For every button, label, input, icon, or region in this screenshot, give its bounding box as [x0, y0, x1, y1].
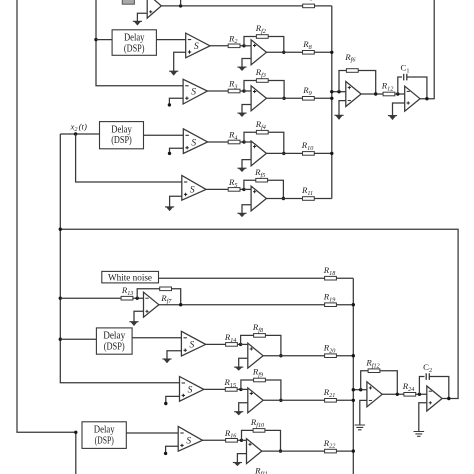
op-amp U1 (integrator)	[405, 86, 420, 111]
node rail to delay1 junction	[94, 38, 97, 41]
node f5 output junction	[282, 197, 285, 200]
wire f4 inverting input to ground	[242, 160, 251, 169]
node R24 / C2 feedback junction	[418, 393, 421, 396]
resistor Rf9	[252, 367, 266, 382]
wire Rf12 output through R24 to integrator U2	[382, 393, 427, 395]
svg-text:(DSP): (DSP)	[104, 342, 125, 353]
wire f4 feedback loop	[244, 132, 284, 153]
capacitor C1	[401, 63, 410, 81]
label x2(t)	[70, 121, 87, 133]
wire f8 inverting input to ground	[239, 358, 248, 367]
resistor R20	[323, 342, 337, 357]
node f10 input junction	[240, 439, 243, 442]
wire f9 input	[241, 388, 248, 390]
resistor R14	[224, 332, 238, 346]
svg-text:(DSP): (DSP)	[95, 435, 115, 446]
node bus B / R19 junction	[352, 303, 355, 306]
node S3 plus terminal	[168, 152, 171, 155]
ground (earth)	[355, 425, 366, 430]
wire delay5 to S7	[126, 432, 178, 434]
node f2 output junction	[282, 51, 285, 54]
resistor R2	[228, 33, 240, 47]
block fragment (cut off at top)	[122, 0, 134, 4]
resistor R18	[323, 265, 337, 280]
resistor R24	[402, 381, 416, 396]
ground	[237, 113, 246, 117]
resistor Rf10	[250, 417, 265, 432]
wire bus A vertical	[331, 6, 333, 199]
wire Rf9 output through R21 to bus B	[281, 399, 353, 401]
resistor Rf8	[252, 322, 266, 337]
resistor R3	[228, 79, 240, 93]
node x2 rail to delay4 junction	[59, 338, 62, 341]
wire bus B to Rf12 non-inverting input	[353, 389, 367, 391]
ground	[234, 412, 243, 415]
wire f2 inverting input to ground	[242, 59, 251, 68]
wire C2 feedback left	[419, 377, 424, 395]
node f5 input junction	[242, 188, 245, 191]
wire Rf8 output through R20 to bus B	[281, 355, 353, 357]
svg-text:S: S	[191, 138, 196, 148]
node delay5 input junction	[74, 431, 77, 434]
node f2 input junction	[242, 44, 245, 47]
resistor R22	[323, 438, 337, 453]
op-amp U f7	[144, 292, 159, 317]
resistor Rf7	[160, 287, 172, 291]
svg-text:Delay: Delay	[124, 33, 145, 44]
svg-text:S: S	[194, 42, 199, 52]
ground	[233, 463, 242, 466]
resistor R16	[224, 428, 238, 442]
resistor Rf6	[344, 52, 358, 72]
wire x2 rail through R13 to Rf7	[60, 297, 143, 299]
resistor Rf2	[255, 23, 269, 38]
resistor Rf5	[254, 167, 268, 182]
op-amp Uf2	[251, 40, 266, 65]
resistor R21	[323, 387, 337, 402]
op-amp U f1 (cut off at top)	[147, 0, 161, 18]
wire x1 rail to S2 input	[96, 0, 183, 86]
op-amp Uf10	[247, 439, 262, 464]
svg-text:S: S	[186, 437, 191, 447]
wire f8 input	[241, 343, 248, 345]
node bus A / R9 junction	[330, 97, 333, 100]
wire S5 plus input to ground	[167, 351, 181, 359]
wire Rf6 output through R12 to integrator U1	[361, 93, 405, 95]
svg-text:White noise: White noise	[108, 272, 152, 283]
resistor R15	[224, 377, 238, 391]
capacitor C2	[423, 362, 432, 380]
node f3 output junction	[282, 97, 285, 100]
ground	[388, 116, 397, 120]
wire Rf6 inverting input to ground	[339, 101, 346, 116]
wire Rf3 output through R9 to bus A	[284, 97, 332, 99]
ground	[169, 71, 178, 75]
node bus A / R8 junction	[330, 51, 333, 54]
wire f2 feedback loop	[244, 37, 284, 53]
resistor R12	[381, 81, 395, 96]
op-amp Uf8	[248, 343, 263, 368]
wire x2 node down to S4 input	[76, 134, 182, 182]
node bus B tap for Rf12	[352, 388, 355, 391]
op-amp Uf4	[251, 141, 266, 166]
ground	[237, 168, 246, 172]
wire Rf7 output through R19 to bus B	[159, 304, 353, 306]
ground (earth)	[414, 432, 425, 437]
ground	[237, 67, 246, 71]
wire U2 output	[442, 398, 449, 400]
node Rf6 feedback junction	[337, 90, 340, 93]
delay block D4	[96, 328, 132, 354]
resistor R8	[302, 39, 314, 54]
resistor R10	[301, 140, 315, 155]
S-block S2	[183, 79, 207, 104]
wire delay2 to S3	[144, 134, 184, 136]
wire f9 inverting input to ground	[239, 403, 248, 412]
delay block D1	[112, 30, 156, 56]
node x2 rail to R13 junction	[59, 297, 62, 300]
wire x1(t) output up to top	[420, 0, 434, 99]
node f9 output junction	[279, 399, 282, 402]
S-block S1	[186, 33, 210, 58]
node bus A / R10 junction	[330, 152, 333, 155]
node S2 plus terminal	[168, 103, 171, 106]
wire f5 inverting input to ground	[242, 205, 251, 214]
wire f2 output	[266, 51, 283, 53]
svg-text:S: S	[191, 87, 196, 97]
label remnant R7 (cut)	[310, 0, 312, 1]
wire S3 output to R4	[208, 141, 244, 143]
resistor R5	[228, 177, 240, 191]
wire f4 output	[266, 152, 283, 154]
svg-text:S: S	[188, 386, 193, 396]
S-block S4	[182, 176, 206, 201]
S-block S5	[181, 331, 205, 356]
node x2(t)	[74, 132, 77, 135]
wire f10 inverting input to ground	[237, 454, 246, 463]
wire S1 output to R2	[210, 45, 244, 47]
ground	[129, 322, 138, 326]
node Rf7 input junction	[136, 297, 139, 300]
wire Rf5 output through R11 to bus A	[283, 198, 331, 200]
ground	[165, 207, 174, 211]
wire U f1 output to bus A	[161, 5, 331, 7]
node bus B / R21 junction	[352, 399, 355, 402]
wire Rf4 output through R10 to bus A	[284, 152, 332, 154]
wire Rf7 feedback loop	[137, 289, 181, 305]
wire Rf7 non-inverting input to ground	[134, 311, 144, 321]
node f8 input junction	[239, 343, 242, 346]
node Rf12 output junction	[396, 393, 399, 396]
wire f4 input	[244, 141, 251, 143]
svg-text:Delay: Delay	[94, 425, 115, 436]
wire bus A to Rf6 non-inverting input	[332, 91, 346, 93]
wire Rf10 output through R22 to bus B	[281, 450, 354, 452]
node f4 output junction	[282, 152, 285, 155]
resistor Rf3	[255, 67, 269, 82]
delay block D2	[100, 122, 144, 149]
block white noise source	[102, 271, 159, 283]
wire delay1 to S1	[156, 39, 185, 41]
svg-text:Delay: Delay	[103, 331, 126, 342]
node f3 input junction	[242, 89, 245, 92]
ground	[162, 359, 171, 363]
wire f3 input	[244, 90, 251, 92]
S-block S6	[180, 377, 204, 402]
op-amp Uf9	[248, 388, 263, 413]
wire U1 non-inverting input to ground	[393, 103, 405, 116]
node U2 output junction	[447, 397, 450, 400]
node S7 plus terminal	[164, 452, 167, 455]
node bus B / R22 junction	[352, 449, 355, 452]
svg-text:S: S	[190, 341, 195, 351]
wire f10 input	[242, 439, 247, 441]
wire f5 feedback loop	[244, 180, 284, 198]
wire S1 plus input to ground	[174, 52, 186, 71]
svg-text:Delay: Delay	[111, 124, 132, 135]
node f10 output junction	[279, 449, 282, 452]
wire Rf2 output through R8 to bus A	[284, 51, 332, 53]
S-block S7	[178, 427, 202, 452]
wire f5 output	[266, 198, 283, 200]
wire S7 plus input stub	[166, 446, 179, 452]
wire Rf12 inverting input to ground	[360, 400, 367, 425]
wire x2 rail down to S6 input	[60, 134, 179, 383]
op-amp Uf3	[251, 86, 266, 111]
wire f2 input	[244, 45, 251, 47]
wire Rf6 feedback loop	[339, 71, 376, 95]
resistor R19	[323, 291, 337, 306]
node x2 rail junction	[59, 228, 62, 231]
op-amp Uf5	[251, 186, 266, 211]
svg-text:(DSP): (DSP)	[124, 43, 145, 54]
node top output junction	[179, 4, 182, 7]
wire S7 output to R16	[203, 439, 242, 441]
wire S6 plus input stub	[166, 396, 180, 402]
node f9 input junction	[239, 388, 242, 391]
wire bus B vertical	[352, 278, 354, 474]
node bus A tap for Rf6	[330, 90, 333, 93]
wire C1 feedback right	[407, 77, 427, 99]
ground	[237, 213, 246, 217]
ground	[334, 115, 343, 119]
wire branch down from delay5 node	[75, 432, 77, 474]
wire S6 output to R15	[204, 388, 241, 390]
wire f10 feedback loop	[242, 430, 281, 451]
svg-text:(DSP): (DSP)	[111, 135, 132, 146]
wire f5 input	[244, 188, 251, 190]
wire f8 output	[263, 355, 281, 357]
wire S3 plus input stub	[170, 148, 184, 152]
wire S4 plus input to ground	[170, 196, 182, 207]
node S6 plus terminal	[164, 402, 167, 405]
ground	[234, 367, 243, 370]
wire x2 rail to delay4	[60, 338, 96, 340]
wire f8 feedback loop	[241, 335, 281, 355]
op-amp U f12	[367, 382, 382, 407]
delay block D5	[82, 422, 126, 449]
S-block S3	[183, 129, 207, 154]
resistor R13	[121, 285, 134, 300]
label Rf7	[160, 293, 172, 305]
resistor Rf4	[255, 119, 269, 134]
wire f10 output	[262, 450, 281, 452]
wire into delay5	[81, 431, 83, 433]
wire U f1 non-inverting input to ground	[137, 13, 147, 21]
label Rf11 (cut off at bottom)	[254, 465, 268, 474]
node Rf6 output junction	[374, 92, 377, 95]
wire S2 plus input stub	[169, 98, 183, 104]
wire S5 output to R14	[206, 343, 241, 345]
resistor R4	[228, 130, 240, 144]
node Rf12 feedback junction	[359, 388, 362, 391]
svg-text:S: S	[190, 186, 195, 196]
node f8 output junction	[279, 354, 282, 357]
ground	[133, 21, 142, 25]
svg-text:(t): (t)	[79, 121, 87, 131]
op-amp U2 (integrator)	[427, 386, 442, 411]
wire stub up from top node	[180, 0, 182, 6]
resistor R7	[303, 4, 315, 8]
wire U2 non-inverting input to ground	[419, 403, 427, 432]
wire x2 node horizontal	[60, 133, 99, 135]
wire delay4 to S5	[132, 337, 181, 339]
wire C1 feedback left	[398, 77, 402, 94]
wire x2 feedback from U2 output	[60, 229, 458, 398]
wire C2 feedback right	[429, 377, 449, 399]
wire f9 output	[263, 399, 281, 401]
node R12 / C1 feedback junction	[396, 92, 399, 95]
node Rf7 output junction	[179, 303, 182, 306]
resistor R11	[301, 185, 314, 200]
wire x1(t) left rail	[17, 0, 76, 432]
resistor R9	[302, 85, 314, 100]
op-amp U f6	[346, 82, 361, 107]
wire S2 output to R3	[207, 90, 244, 92]
wire rail to delay1	[96, 39, 112, 41]
wire f3 feedback loop	[244, 81, 284, 99]
wire f3 inverting input to ground	[242, 105, 251, 114]
wire white noise through R18 to bus B	[159, 277, 354, 279]
wire Rf12 feedback loop	[361, 371, 398, 395]
node bus B / R20 junction	[352, 354, 355, 357]
node U1 output junction	[425, 97, 428, 100]
wire f9 feedback loop	[241, 380, 281, 400]
wire f3 output	[266, 97, 284, 99]
wire S4 output to R5	[206, 188, 244, 190]
node f4 input junction	[242, 140, 245, 143]
resistor Rf12	[365, 357, 380, 372]
